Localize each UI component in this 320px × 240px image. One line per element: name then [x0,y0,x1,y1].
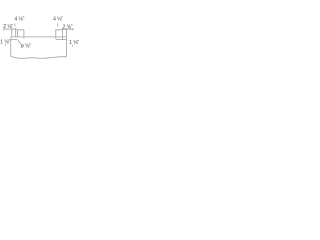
svg-text:4 ⅛”: 4 ⅛” [53,16,63,22]
diameter leader line [18,40,22,44]
extension line x=66.4 [65,28,67,37]
extension above right post edge [61,28,63,30]
tick right end [72,28,74,31]
rail bottom edge right [56,39,67,41]
right post outline [56,30,63,40]
dimension line left 2-5/8 [4,28,17,30]
leader dash under left 4-1/8 [14,24,16,27]
panel right edge [66,37,68,57]
svg-text:2 ⅝”: 2 ⅝” [63,25,73,31]
svg-text:ø ⅝”: ø ⅝” [21,43,31,49]
svg-text:4 ⅛”: 4 ⅛” [14,16,24,22]
break wavy line [11,56,67,58]
extension line x=11.8 [11,28,13,37]
dimension line right 2-5/8 [62,28,73,30]
svg-text:1 ⅝”: 1 ⅝” [69,40,79,46]
leader dash under right 1-5/8 [72,45,74,47]
panel left edge [10,37,12,56]
rail top edge [11,36,67,38]
svg-text:2 ⅝”: 2 ⅝” [3,24,13,30]
leader dash under left 1-5/8 [5,44,7,46]
left post outline [17,30,24,39]
svg-text:1 ⅝”: 1 ⅝” [0,40,10,46]
rail bottom edge left [11,39,18,41]
tick left end [3,28,5,30]
extension line x=15.7 [15,28,17,37]
leader dash under right 4-1/8 [57,23,59,26]
